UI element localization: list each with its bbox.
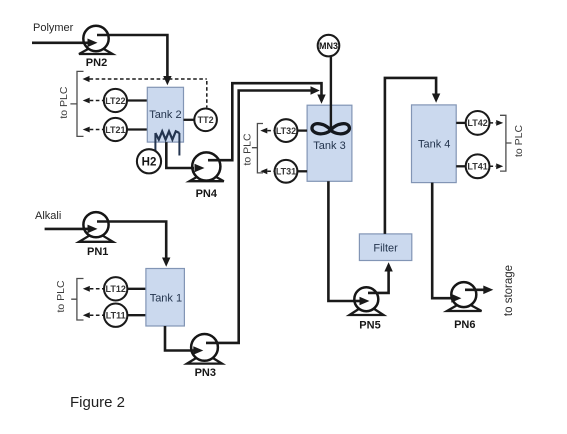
dashed wire LT41 to bracket bbox=[490, 165, 497, 167]
pump PN3 bbox=[187, 334, 222, 379]
wire PN2 to Tank 2 bbox=[97, 35, 167, 77]
dashed wire LT22 to bracket bbox=[83, 98, 90, 104]
svg-text:Tank 2: Tank 2 bbox=[149, 109, 181, 121]
svg-text:to storage: to storage bbox=[503, 265, 515, 316]
wire alkali feed into PN1 bbox=[45, 228, 88, 231]
instrument LT31 bbox=[297, 170, 307, 172]
svg-text:PN3: PN3 bbox=[195, 367, 216, 379]
svg-text:LT31: LT31 bbox=[276, 167, 296, 177]
svg-text:H2: H2 bbox=[142, 157, 157, 169]
pipe PN5 to Filter bbox=[368, 271, 389, 293]
pipe Tank3 drain to PN5 bbox=[328, 181, 364, 301]
svg-text:LT11: LT11 bbox=[106, 311, 126, 321]
impeller bbox=[312, 124, 349, 134]
instrument LT11 bbox=[127, 314, 145, 316]
pipe Filter to Tank 4 bbox=[385, 78, 436, 234]
svg-text:LT41: LT41 bbox=[467, 162, 487, 172]
svg-text:to PLC: to PLC bbox=[513, 125, 525, 158]
wire polymer feed into PN2 bbox=[32, 41, 88, 44]
svg-text:Alkali: Alkali bbox=[35, 210, 61, 222]
filter box bbox=[359, 234, 411, 261]
dashed wire LT32 to bracket bbox=[260, 128, 267, 134]
instrument LT41 bbox=[456, 165, 466, 167]
instrument LT22 bbox=[127, 99, 147, 101]
bracket tank4 PLC group bbox=[500, 115, 512, 171]
svg-text:to PLC: to PLC bbox=[242, 133, 254, 166]
heater element in Tank 2 bbox=[155, 131, 179, 139]
svg-text:PN4: PN4 bbox=[196, 188, 218, 200]
wire PN1 to Tank 1 bbox=[97, 222, 166, 259]
node dashed TT2 to PLC bbox=[83, 76, 90, 82]
svg-text:to PLC: to PLC bbox=[58, 86, 70, 119]
instrument LT12 bbox=[127, 288, 145, 290]
svg-text:PN2: PN2 bbox=[86, 57, 107, 69]
svg-text:LT21: LT21 bbox=[105, 125, 125, 135]
instrument LT32 bbox=[297, 129, 307, 131]
bracket tank1 PLC group bbox=[71, 279, 83, 321]
dashed wire LT11 to bracket bbox=[83, 312, 90, 318]
pipe Tank4 drain to PN6 bbox=[432, 183, 456, 299]
mixer MN3 bbox=[318, 35, 340, 57]
svg-text:LT32: LT32 bbox=[276, 126, 296, 136]
pump PN6 bbox=[447, 282, 482, 331]
pump PN2 bbox=[79, 26, 113, 69]
bracket tank2 PLC group bbox=[70, 71, 83, 136]
dashed wire LT21 to bracket bbox=[83, 127, 90, 133]
bracket tank3 PLC group bbox=[252, 124, 263, 173]
wire PN6 to storage bbox=[465, 288, 484, 291]
svg-text:Figure 2: Figure 2 bbox=[70, 394, 125, 411]
svg-text:to PLC: to PLC bbox=[55, 280, 67, 313]
svg-text:Tank 4: Tank 4 bbox=[418, 139, 450, 151]
mixer shaft bbox=[330, 56, 332, 131]
svg-text:PN5: PN5 bbox=[359, 320, 380, 332]
svg-text:LT12: LT12 bbox=[106, 284, 126, 294]
instrument LT42 bbox=[456, 122, 466, 124]
svg-text:LT22: LT22 bbox=[105, 96, 125, 106]
pump PN1 bbox=[79, 212, 113, 258]
pipe Tank2 drain to PN4 bbox=[166, 142, 200, 168]
instrument H2 heater circle bbox=[137, 149, 161, 173]
svg-text:Filter: Filter bbox=[373, 242, 398, 254]
svg-text:TT2: TT2 bbox=[198, 115, 214, 125]
pump PN5 bbox=[350, 287, 384, 331]
tank Tank 4 bbox=[412, 105, 457, 183]
svg-text:Tank 1: Tank 1 bbox=[150, 293, 182, 305]
svg-text:Polymer: Polymer bbox=[33, 22, 74, 34]
pipe PN3 to Tank 3 (line B) bbox=[206, 91, 311, 343]
tank Tank 1 bbox=[146, 269, 185, 327]
tank Tank 3 bbox=[307, 105, 352, 181]
svg-text:PN1: PN1 bbox=[87, 246, 108, 258]
svg-text:Tank 3: Tank 3 bbox=[313, 140, 345, 152]
svg-text:PN6: PN6 bbox=[454, 319, 475, 331]
pipe Tank1 drain to PN3 bbox=[165, 326, 198, 351]
instrument LT21 bbox=[127, 128, 147, 130]
svg-text:LT42: LT42 bbox=[467, 118, 487, 128]
pump PN4 bbox=[190, 152, 224, 200]
svg-text:MN3: MN3 bbox=[319, 41, 338, 51]
dashed wire LT42 to bracket bbox=[490, 122, 497, 124]
tank Tank 2 bbox=[147, 87, 183, 142]
instrument TT2 bbox=[184, 119, 195, 121]
dashed wire LT31 to bracket bbox=[260, 168, 267, 174]
dashed wire LT12 to bracket bbox=[83, 286, 90, 292]
pipe PN4 to Tank 3 (line A) bbox=[208, 83, 322, 160]
